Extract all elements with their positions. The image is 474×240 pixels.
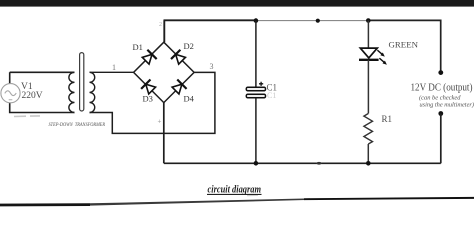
svg-text:C1: C1 [267, 91, 276, 100]
svg-text:+: + [158, 118, 162, 126]
svg-text:3: 3 [210, 62, 214, 71]
diode D1 [141, 50, 157, 66]
svg-text:(can be checked: (can be checked [419, 95, 461, 102]
diode D2 [171, 50, 187, 66]
AC source V1 [1, 84, 20, 103]
bridge diamond wires [134, 42, 195, 102]
wire: V1 left loop (top, left, bottom) [10, 72, 75, 112]
wire: bridge bottom to - rail [163, 102, 165, 163]
output probe dot top [438, 70, 443, 75]
capacitor C1 [246, 82, 265, 98]
output probe dot bottom [438, 111, 443, 116]
core [80, 53, 84, 111]
svg-text:using the multimeter): using the multimeter) [420, 102, 474, 109]
svg-text:D3: D3 [143, 94, 153, 104]
wire: R1 bottom lead [367, 144, 369, 163]
top black scan bar [0, 0, 474, 7]
LED D5 (GREEN) [359, 48, 387, 65]
wire: right branch lower [440, 114, 442, 164]
svg-text:D4: D4 [184, 94, 195, 104]
wire: secondary bottom jog to bridge node 3 [90, 72, 215, 133]
svg-text:STEP-DOWN TRANSFORMER: STEP-DOWN TRANSFORMER [49, 123, 106, 128]
svg-text:circuit diagram: circuit diagram [208, 184, 262, 195]
svg-text:2: 2 [159, 22, 162, 28]
secondary winding [90, 72, 95, 112]
svg-text:1: 1 [112, 63, 116, 72]
transformer T1 [69, 53, 95, 113]
junction dot (C1 / bottom rail) [254, 161, 259, 166]
svg-text:R1: R1 [382, 114, 393, 124]
primary winding [69, 72, 75, 112]
wire: - bottom rail [164, 162, 441, 164]
wire: LED to R1 [367, 60, 369, 114]
junction dot (R1 / bottom rail) [366, 161, 371, 166]
wire: + top rail [164, 19, 257, 21]
junction dot (LED / top rail) [366, 18, 371, 23]
bottom scan page edge line [0, 203, 90, 206]
resistor R1 [364, 114, 373, 145]
junction dot (C1 / top rail) [254, 18, 259, 23]
wire: secondary top to bridge node 1 [90, 71, 134, 73]
svg-text:12V DC (output): 12V DC (output) [411, 83, 473, 94]
diode D3 [141, 80, 157, 96]
wire: bridge top stub to + rail [163, 20, 165, 42]
diode D4 [171, 80, 187, 96]
svg-text:220V: 220V [22, 91, 43, 101]
wire: C1 top lead [255, 21, 257, 88]
svg-text:GREEN: GREEN [389, 41, 419, 50]
svg-text:D1: D1 [133, 42, 143, 52]
wire: LED top lead [367, 21, 369, 49]
svg-text:D2: D2 [184, 41, 194, 51]
junction dot (mid bottom rail) [316, 162, 321, 165]
wire: C1 bottom lead [255, 98, 257, 164]
junction dot (mid top rail) [316, 19, 320, 23]
